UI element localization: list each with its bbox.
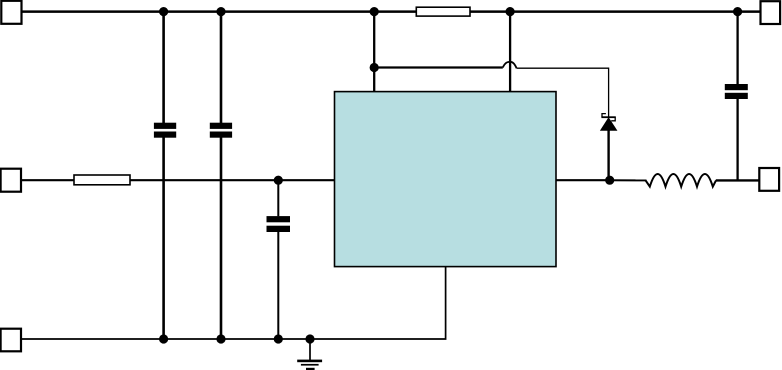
inductor L1 — [646, 174, 716, 187]
wire C1 lower leg — [162, 138, 165, 340]
wire C2 upper leg — [220, 12, 223, 123]
wire IC output to diode node — [556, 179, 610, 181]
capacitor C4 — [725, 84, 748, 99]
wire C4 lower leg — [736, 99, 738, 181]
wire R2 to IC left pin — [130, 179, 335, 181]
wire C3 lower leg — [277, 232, 279, 339]
wire C1 upper leg — [162, 12, 165, 123]
node VIN-D junction dot — [506, 7, 515, 16]
wire bottom ground rail — [21, 267, 446, 339]
resistor R2 — [74, 175, 130, 185]
wire C4 upper leg — [736, 12, 738, 85]
capacitor C3 — [267, 216, 291, 232]
terminal P4 top-right — [761, 1, 781, 24]
wire C2 lower leg — [220, 138, 223, 340]
ground — [297, 339, 322, 370]
node GND-B junction dot — [216, 334, 225, 343]
node GND junction dot — [305, 334, 314, 343]
diode D1 (Schottky) — [601, 114, 617, 181]
terminal P1 top-left — [1, 1, 21, 24]
terminal P5 mid-right — [759, 168, 779, 191]
node GND-A junction dot — [159, 334, 168, 343]
wire IC pin VIN drop — [373, 12, 375, 92]
node VIN-C junction dot — [370, 7, 379, 16]
node GND-C junction dot — [274, 334, 283, 343]
node VIN-B junction dot — [216, 7, 225, 16]
node FB junction dot — [370, 63, 379, 72]
wire feedback thin to diode — [517, 68, 609, 116]
capacitor C2 — [210, 123, 232, 138]
wire P2 to R2 — [21, 179, 75, 181]
wire top rail left segment — [22, 10, 416, 13]
resistor R1 — [416, 7, 470, 16]
capacitor C1 — [154, 123, 176, 138]
node C3 junction dot — [274, 176, 283, 185]
wire feedback horizontal — [374, 66, 503, 68]
node VIN-A junction dot — [159, 7, 168, 16]
terminal P3 bottom-left — [1, 329, 21, 352]
wire C3 upper leg — [277, 180, 279, 216]
wire top rail right segment — [470, 10, 761, 13]
node SW-out junction dot — [605, 176, 614, 185]
wire hop over SW drop — [503, 62, 517, 68]
wire diode node to inductor — [610, 179, 647, 181]
wire IC pin SW drop — [509, 12, 511, 92]
wire inductor to P5 — [716, 179, 760, 181]
terminal P2 mid-left — [1, 169, 21, 192]
node VOUT-top junction dot — [733, 7, 742, 16]
IC U1 — [335, 92, 557, 267]
